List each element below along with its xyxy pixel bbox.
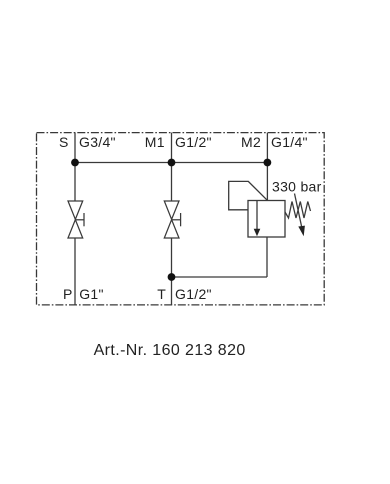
svg-text:G1/2": G1/2" bbox=[175, 286, 212, 302]
svg-text:M2: M2 bbox=[241, 134, 261, 150]
svg-text:M1: M1 bbox=[145, 134, 165, 150]
svg-text:P: P bbox=[63, 286, 73, 302]
svg-text:T: T bbox=[157, 286, 166, 302]
svg-text:G3/4": G3/4" bbox=[79, 134, 116, 150]
svg-text:330 bar: 330 bar bbox=[272, 178, 322, 194]
svg-text:G1": G1" bbox=[79, 286, 104, 302]
svg-text:G1/4": G1/4" bbox=[271, 134, 308, 150]
svg-text:G1/2": G1/2" bbox=[175, 134, 212, 150]
svg-text:Art.-Nr. 160 213 820: Art.-Nr. 160 213 820 bbox=[94, 342, 246, 359]
svg-text:S: S bbox=[59, 134, 69, 150]
